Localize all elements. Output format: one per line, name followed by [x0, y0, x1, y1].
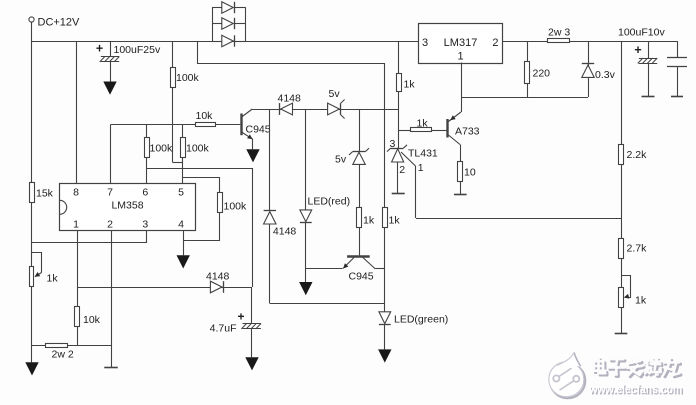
svg-text:+: + — [237, 310, 244, 324]
svg-text:1k: 1k — [635, 295, 647, 307]
svg-text:220: 220 — [533, 68, 551, 80]
svg-text:1k: 1k — [417, 118, 429, 130]
svg-text:1: 1 — [73, 218, 79, 230]
svg-text:1: 1 — [418, 162, 424, 174]
svg-text:10: 10 — [464, 167, 476, 179]
svg-text:5: 5 — [178, 187, 184, 199]
svg-text:4148: 4148 — [273, 226, 297, 238]
svg-text:TL431: TL431 — [408, 148, 438, 160]
svg-text:1k: 1k — [47, 273, 59, 285]
svg-text:6: 6 — [142, 187, 148, 199]
svg-text:15k: 15k — [36, 188, 54, 200]
svg-text:2.7k: 2.7k — [627, 243, 648, 255]
svg-text:3: 3 — [390, 138, 396, 150]
svg-text:2.2k: 2.2k — [627, 149, 648, 161]
svg-text:0.3v: 0.3v — [595, 69, 616, 81]
svg-text:8: 8 — [73, 187, 79, 199]
svg-text:C945: C945 — [349, 271, 374, 283]
svg-text:+: + — [634, 43, 641, 57]
svg-text:1k: 1k — [363, 215, 375, 227]
svg-text:LM358: LM358 — [111, 200, 143, 212]
svg-text:C945: C945 — [246, 124, 271, 136]
svg-text:5v: 5v — [329, 88, 341, 100]
svg-text:100k: 100k — [176, 72, 200, 84]
svg-text:5v: 5v — [335, 154, 347, 166]
svg-text:DC+12V: DC+12V — [38, 17, 81, 29]
svg-text:2w 2: 2w 2 — [52, 349, 74, 361]
svg-text:100k: 100k — [150, 143, 174, 155]
svg-text:2: 2 — [492, 37, 498, 49]
svg-text:3: 3 — [422, 37, 428, 49]
svg-text:7: 7 — [107, 187, 113, 199]
svg-text:4148: 4148 — [278, 93, 302, 105]
svg-text:4: 4 — [178, 218, 184, 230]
svg-text:2: 2 — [107, 218, 113, 230]
svg-text:10k: 10k — [83, 314, 101, 326]
svg-text:100k: 100k — [224, 201, 248, 213]
svg-text:2w 3: 2w 3 — [548, 27, 570, 39]
svg-text:A733: A733 — [455, 126, 480, 138]
svg-text:100k: 100k — [186, 143, 210, 155]
svg-text:1k: 1k — [389, 215, 401, 227]
svg-text:1k: 1k — [404, 79, 416, 91]
svg-text:100uF25v: 100uF25v — [114, 44, 161, 56]
svg-text:LED(green): LED(green) — [394, 314, 448, 326]
svg-text:LED(red): LED(red) — [308, 196, 351, 208]
svg-text:+: + — [96, 42, 103, 56]
svg-text:10k: 10k — [196, 110, 214, 122]
svg-text:100uF10v: 100uF10v — [618, 27, 665, 39]
svg-text:1: 1 — [457, 51, 463, 63]
svg-text:LM317: LM317 — [444, 37, 478, 49]
svg-text:2: 2 — [399, 164, 405, 176]
svg-text:www.elecfans.com: www.elecfans.com — [588, 384, 682, 396]
svg-text:4148: 4148 — [206, 271, 230, 283]
svg-text:3: 3 — [142, 218, 148, 230]
svg-text:4.7uF: 4.7uF — [210, 323, 237, 335]
